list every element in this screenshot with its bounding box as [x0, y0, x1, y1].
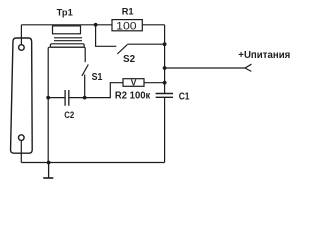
- label S2: [123, 54, 136, 65]
- label C1: [179, 92, 190, 103]
- junction node R2 / bus: [163, 81, 167, 85]
- svg-text:100: 100: [116, 21, 136, 33]
- junction node S2 / bus: [163, 42, 167, 46]
- junction node S1 bottom: [83, 96, 87, 100]
- svg-text:Тр1: Тр1: [57, 7, 73, 17]
- switch S1: [82, 65, 88, 98]
- svg-text:S1: S1: [92, 72, 103, 83]
- lamp bottom electrode: [19, 135, 25, 141]
- wire right vertical bus: [164, 25, 166, 163]
- supply connector arrow: [245, 64, 252, 71]
- capacitor C1: [156, 94, 173, 98]
- discharge lamp (gas tube): [11, 38, 33, 153]
- wire top horizontal: [21, 24, 164, 26]
- wire lamp top lead: [20, 25, 22, 45]
- switch S2: [96, 25, 165, 54]
- svg-text:S2: S2: [123, 54, 136, 65]
- value 100 of R1: [116, 21, 136, 33]
- label R2 100k: [115, 91, 150, 102]
- label +Upitaniya: [238, 49, 290, 61]
- ground: [43, 163, 53, 179]
- junction node top wire / S2: [94, 23, 98, 27]
- svg-text:C2: C2: [64, 110, 74, 120]
- wire C2 row: [48, 83, 164, 98]
- transformer Tr1 secondary body: [48, 47, 85, 162]
- junction node ground: [47, 161, 51, 165]
- supply wire +U: [165, 67, 245, 69]
- svg-text:R2 100к: R2 100к: [115, 91, 150, 102]
- svg-text:+Uпитания: +Uпитания: [238, 49, 290, 61]
- transformer Tr1 primary winding: [53, 26, 81, 34]
- junction node supply / bus: [163, 66, 167, 70]
- label S1: [92, 72, 103, 83]
- label Tr1: [57, 7, 73, 17]
- transformer Tr1 core: [54, 38, 82, 41]
- label C2: [64, 110, 74, 120]
- svg-text:C1: C1: [179, 92, 190, 103]
- label R1: [122, 7, 134, 17]
- wire lamp bottom lead: [20, 140, 22, 162]
- capacitor C2: [65, 90, 69, 106]
- label V inside R2: [131, 78, 137, 88]
- wire bottom horizontal: [21, 162, 164, 164]
- resistor R1: [112, 20, 142, 31]
- svg-text:R1: R1: [122, 7, 134, 17]
- svg-text:V: V: [131, 78, 137, 88]
- resistor R2 box with V: [123, 79, 144, 87]
- lamp top electrode: [19, 45, 25, 51]
- transformer Tr1 secondary winding cap: [50, 44, 84, 47]
- junction node secondary left / C2: [46, 96, 50, 100]
